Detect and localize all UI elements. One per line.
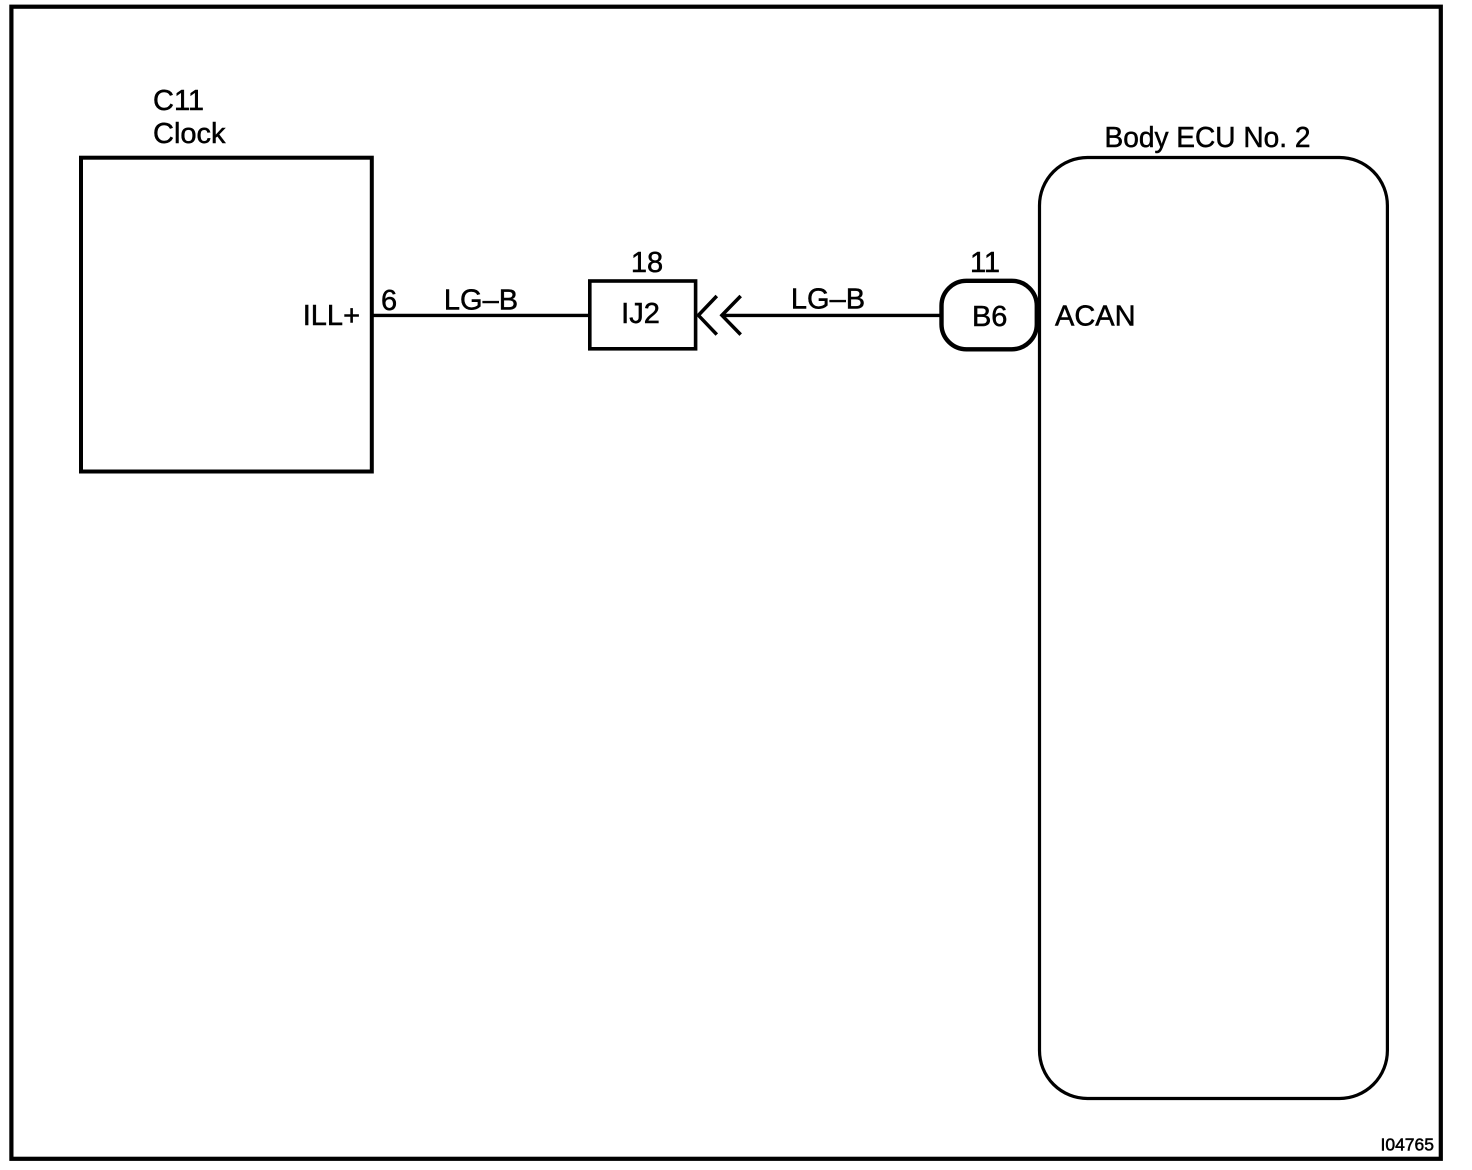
wire LG-B from C11 pin 6 to IJ2 <box>373 314 590 317</box>
chevron arrow 1 <box>698 296 716 335</box>
svg-text:IJ2: IJ2 <box>621 298 660 330</box>
chevron arrow 2 <box>722 296 741 335</box>
junction connector IJ2 box <box>590 281 696 349</box>
svg-text:6: 6 <box>381 285 397 317</box>
connector C11 Clock box <box>81 158 372 472</box>
svg-text:Body ECU No. 2: Body ECU No. 2 <box>1105 122 1311 154</box>
svg-text:18: 18 <box>631 247 663 279</box>
svg-text:ILL+: ILL+ <box>303 300 360 332</box>
svg-text:I04765: I04765 <box>1380 1134 1434 1154</box>
svg-text:B6: B6 <box>972 301 1007 333</box>
svg-text:Clock: Clock <box>153 118 226 150</box>
connector B6 stadium <box>942 281 1037 350</box>
svg-text:11: 11 <box>970 247 1000 279</box>
svg-text:LG–B: LG–B <box>791 284 865 316</box>
ECU Body ECU No. 2 box <box>1040 158 1388 1099</box>
wire LG-B from arrow to B6 <box>723 314 940 317</box>
svg-text:LG–B: LG–B <box>444 284 518 316</box>
svg-text:ACAN: ACAN <box>1055 301 1136 333</box>
svg-text:C11: C11 <box>153 85 204 117</box>
